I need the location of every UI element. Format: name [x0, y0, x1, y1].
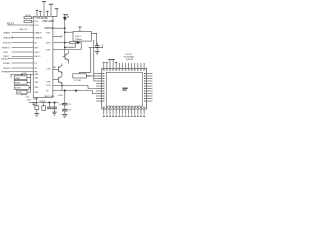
- svg-text:ICSP1: ICSP1: [15, 88, 22, 90]
- open arrow node: [61, 35, 62, 37]
- svg-text:OSCI: OSCI: [34, 52, 40, 54]
- svg-text:TEST GND: TEST GND: [44, 96, 55, 98]
- svg-text:3V3OUT: 3V3OUT: [3, 42, 12, 44]
- svg-text:OSCO: OSCO: [34, 56, 41, 58]
- bus wire: [93, 40, 95, 81]
- jumper block JP1: [14, 76, 27, 80]
- svg-text:VDD: VDD: [23, 73, 28, 75]
- wire: [53, 84, 88, 86]
- wire: [64, 111, 66, 115]
- svg-text:JTAG: JTAG: [15, 77, 20, 80]
- power cap: [115, 62, 117, 64]
- wire tap: [94, 73, 96, 75]
- wire: [53, 49, 81, 51]
- svg-text:C2: C2: [68, 104, 72, 106]
- svg-text:DTR: DTR: [46, 81, 51, 83]
- wire to oscillator: [65, 31, 73, 33]
- U2 right pins: [147, 74, 153, 102]
- power flag: [36, 9, 39, 11]
- svg-text:SSOP28: SSOP28: [44, 27, 54, 30]
- wire: [10, 74, 12, 77]
- svg-text:R1 R2: R1 R2: [25, 15, 32, 17]
- junction: [64, 90, 65, 91]
- svg-text:RXLED: RXLED: [3, 63, 10, 65]
- svg-text:USB_5V: USB_5V: [19, 29, 28, 31]
- U2 pin numbers ring: [103, 69, 146, 117]
- svg-text:C15: C15: [25, 97, 30, 99]
- wire: [53, 90, 92, 92]
- net labels left column: [1, 29, 28, 73]
- U2 center label: [123, 88, 128, 89]
- svg-text:CB2: CB2: [34, 82, 39, 84]
- U2 left pins: [96, 74, 102, 102]
- junction: [64, 42, 65, 43]
- svg-text:TXD: TXD: [34, 25, 39, 27]
- wire: [12, 47, 34, 49]
- jumper block JP2: [14, 80, 27, 84]
- svg-text:USBDM: USBDM: [3, 37, 11, 39]
- svg-text:RS-TX: RS-TX: [7, 22, 15, 25]
- power flag: [46, 10, 49, 12]
- svg-text:PWREN: PWREN: [2, 71, 10, 73]
- IC U1 (USB/serial interface, left tall IC): [33, 16, 53, 97]
- bus wire: [30, 74, 32, 92]
- svg-text:USBDP: USBDP: [3, 32, 11, 34]
- pin names inside U1 left: [34, 17, 42, 94]
- wire USBDM: [12, 37, 34, 39]
- tick: [75, 91, 77, 93]
- LED D1 with arrows: [64, 15, 66, 57]
- wire: [36, 110, 38, 114]
- svg-text:PW: PW: [34, 71, 37, 73]
- diode D2: [77, 41, 79, 43]
- junction: [21, 74, 22, 75]
- ground: [95, 51, 100, 54]
- wire: [65, 41, 76, 47]
- wire: [92, 91, 96, 94]
- resistor R4: [35, 106, 39, 110]
- ground GND1: [32, 103, 37, 106]
- pin names inside U1 right: [46, 32, 52, 92]
- wire: [43, 2, 45, 16]
- wire: [8, 58, 33, 60]
- svg-text:USBDP: USBDP: [34, 32, 42, 34]
- U2 body outer: [102, 68, 147, 109]
- U2 top pins: [103, 60, 145, 69]
- wire USBDP: [12, 32, 34, 34]
- svg-text:100n: 100n: [27, 99, 31, 101]
- svg-text:TX: TX: [34, 63, 37, 65]
- wire: [29, 102, 59, 104]
- jumper block JP4: [17, 90, 27, 94]
- jumper labels: [15, 73, 27, 94]
- resistor R1: [24, 17, 31, 19]
- microcontroller U2 QFP: [102, 68, 147, 109]
- crystal Y1: [73, 74, 87, 78]
- svg-text:CB4: CB4: [34, 92, 39, 94]
- power flag: [78, 26, 81, 28]
- svg-text:RTS: RTS: [46, 49, 51, 51]
- transistor Q2: [58, 66, 60, 72]
- ground: [62, 114, 68, 117]
- wire: [12, 55, 34, 57]
- resistor R2: [24, 20, 31, 22]
- svg-text:RI: RI: [47, 90, 50, 92]
- capacitor C2: [64, 91, 66, 104]
- pin tick: [79, 72, 81, 74]
- svg-text:GND: GND: [33, 99, 38, 101]
- ground: [52, 112, 57, 115]
- svg-text:CBUS2: CBUS2: [3, 68, 11, 70]
- wire: [27, 77, 31, 79]
- wire: [88, 85, 96, 88]
- decoupling cap C4: [89, 47, 104, 49]
- junction: [64, 32, 65, 33]
- svg-text:TXD: TXD: [46, 32, 51, 34]
- transistor Q3: [58, 77, 60, 83]
- svg-text:CTS: CTS: [46, 69, 51, 71]
- node circle: [12, 37, 13, 38]
- capacitor C6: [48, 103, 50, 108]
- wire: [31, 17, 33, 19]
- wire: [53, 9, 57, 16]
- wire: [36, 97, 38, 102]
- svg-text:RXD: RXD: [46, 42, 51, 44]
- U2 bottom pins: [104, 109, 144, 115]
- wire: [50, 5, 52, 17]
- junction: [61, 85, 62, 86]
- power flag 3V3: [55, 8, 59, 10]
- ground: [35, 113, 40, 116]
- capacitor C3: [64, 105, 66, 109]
- wire tap: [94, 78, 96, 80]
- wire: [54, 109, 56, 112]
- wire: [9, 71, 33, 73]
- wire: [12, 62, 34, 64]
- bottom-left small texts: [22, 94, 32, 101]
- svg-text:TQFP64: TQFP64: [125, 59, 134, 61]
- U2 body inner: [106, 72, 142, 106]
- wire: [53, 68, 59, 70]
- pin stub: [39, 12, 41, 17]
- svg-text:C6 C7: C6 C7: [59, 104, 66, 106]
- svg-text:100n: 100n: [58, 95, 62, 97]
- svg-text:TXLED#: TXLED#: [1, 58, 10, 60]
- bus wire: [80, 48, 91, 73]
- pin stub: [46, 12, 48, 17]
- power cap: [103, 62, 105, 64]
- wire tap: [94, 80, 96, 82]
- wire: [86, 75, 96, 77]
- svg-text:MCLR: MCLR: [22, 94, 28, 96]
- wire: [53, 79, 59, 81]
- power flag VCC: [42, 1, 46, 3]
- pin stub: [79, 27, 81, 31]
- wire: [21, 94, 23, 95]
- svg-text:VBUS: VBUS: [40, 101, 46, 103]
- wire: [96, 48, 98, 52]
- capacitor C7: [54, 103, 56, 108]
- wire: [12, 51, 34, 53]
- svg-text:CB1: CB1: [34, 78, 39, 80]
- svg-text:CB3: CB3: [34, 87, 39, 89]
- junction: [54, 102, 55, 103]
- arrow: [66, 14, 68, 16]
- svg-text:Y1 12M: Y1 12M: [74, 80, 81, 82]
- svg-text:PGM: PGM: [15, 82, 20, 84]
- wire: [12, 67, 34, 69]
- wire: [27, 81, 31, 83]
- wire: [53, 42, 70, 44]
- wire: [79, 43, 81, 50]
- wire: [86, 75, 90, 77]
- wire: [12, 42, 34, 44]
- wire: [53, 66, 56, 68]
- svg-text:OSC1: OSC1: [75, 36, 82, 38]
- oscillator module box: [73, 32, 92, 42]
- svg-text:C3: C3: [68, 110, 72, 112]
- svg-text:NC: NC: [34, 42, 38, 44]
- wire: [53, 27, 65, 29]
- transistor Q1: [64, 54, 66, 60]
- svg-text:RST: RST: [34, 47, 39, 49]
- wire RS-TX: [8, 24, 34, 26]
- resistor R5: [43, 103, 45, 106]
- junction: [64, 47, 65, 48]
- svg-text:OSCI: OSCI: [3, 52, 9, 54]
- junction: [64, 28, 65, 29]
- power flag: [39, 10, 42, 12]
- wire: [36, 103, 38, 106]
- pin stub: [36, 11, 38, 17]
- svg-text:USB UART: USB UART: [42, 20, 55, 23]
- junction: [75, 90, 76, 91]
- svg-text:CB0: CB0: [34, 74, 39, 76]
- wire: [53, 35, 61, 37]
- resistor R3: [70, 41, 75, 43]
- svg-text:RESET#: RESET#: [2, 47, 11, 49]
- junction: [49, 102, 50, 103]
- wire: [27, 91, 31, 93]
- svg-text:RX: RX: [34, 68, 38, 70]
- svg-text:3V3: 3V3: [34, 21, 39, 23]
- svg-text:USBDM: USBDM: [34, 37, 42, 39]
- wire: [62, 56, 65, 58]
- jumper block JP3: [14, 86, 29, 90]
- power bar on pins: [108, 59, 115, 61]
- capacitor C5: [101, 45, 103, 48]
- wire: [92, 33, 97, 45]
- power cap: [106, 62, 108, 64]
- wire: [29, 87, 31, 89]
- svg-text:12MHz: 12MHz: [75, 39, 82, 41]
- power flag VCCIO: [49, 3, 53, 5]
- wire: [31, 20, 33, 22]
- wire: [11, 73, 33, 75]
- svg-text:DCD: DCD: [47, 85, 52, 87]
- arrow: [67, 17, 69, 19]
